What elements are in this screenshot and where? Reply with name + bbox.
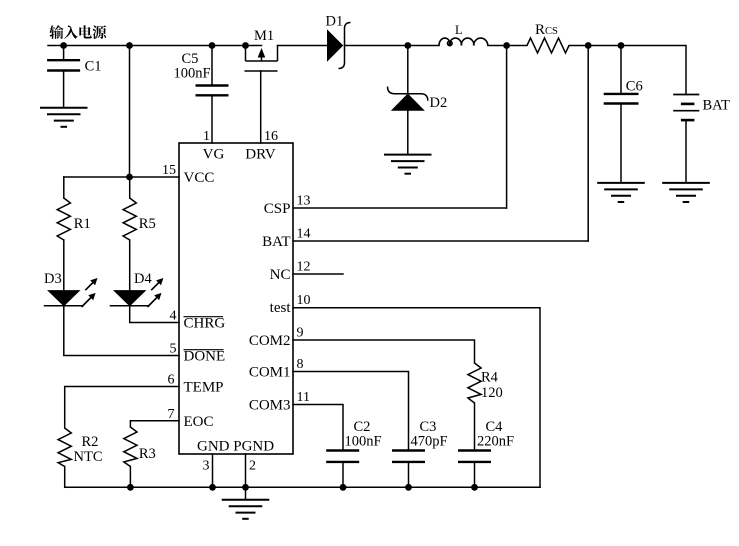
wire pin 13 CSP horizontal xyxy=(293,207,507,209)
svg-text:D2: D2 xyxy=(430,95,448,111)
wire D2 bottom lead to ground xyxy=(407,110,409,154)
svg-text:120: 120 xyxy=(481,385,503,401)
node Rcs / BAT sense junction xyxy=(585,42,592,49)
ground under D2 xyxy=(384,155,432,174)
node D1 cathode / D2 junction xyxy=(404,42,411,49)
svg-text:10: 10 xyxy=(297,293,311,308)
wire pin 7 EOC to R3 xyxy=(130,421,179,427)
wire D4 cathode to pin 4 CHRG xyxy=(130,306,179,323)
svg-text:6: 6 xyxy=(168,373,175,388)
node bottom rail / C3 junction xyxy=(405,484,412,491)
wire Rcs to BAT corner xyxy=(588,46,686,95)
wire top input rail left segment xyxy=(48,45,262,47)
svg-text:11: 11 xyxy=(297,390,310,405)
wire R5 top lead xyxy=(129,177,131,198)
battery BAT xyxy=(673,95,699,183)
node input rail / C5 junction xyxy=(209,42,216,49)
LED D3 xyxy=(48,291,79,306)
svg-text:R1: R1 xyxy=(74,216,91,232)
wire pin 2 PGND lead xyxy=(245,454,247,487)
LED D4 xyxy=(114,291,145,306)
node L / Rcs / CSP junction xyxy=(503,42,510,49)
node bottom rail / R3 junction xyxy=(127,484,134,491)
capacitor C6 xyxy=(604,94,639,104)
wire D2 top lead xyxy=(407,46,409,94)
wire C5 top lead xyxy=(211,46,213,86)
diode D1 xyxy=(328,31,343,61)
capacitor C4 xyxy=(458,451,491,462)
resistor R2 xyxy=(58,428,71,467)
resistor R5 xyxy=(123,198,136,240)
wire pin 16 DRV gate lead xyxy=(260,71,262,143)
resistor R4 xyxy=(468,363,481,403)
svg-text:14: 14 xyxy=(297,227,311,242)
wire pin 6 TEMP to R2 xyxy=(65,387,179,429)
svg-text:R5: R5 xyxy=(139,216,156,232)
wire C1 bottom lead to ground xyxy=(63,71,65,108)
svg-text:COM2: COM2 xyxy=(249,333,291,349)
svg-text:EOC: EOC xyxy=(184,414,214,430)
wire pin 12 NC stub xyxy=(293,273,343,275)
wire D1 cathode to inductor xyxy=(345,45,440,47)
node bottom rail / C2 junction xyxy=(340,484,347,491)
svg-text:15: 15 xyxy=(162,163,176,178)
svg-text:L: L xyxy=(455,23,463,37)
capacitor C5 xyxy=(196,86,229,96)
svg-text:DONE: DONE xyxy=(184,349,226,365)
svg-text:8: 8 xyxy=(297,357,304,372)
wire pin 1 VG lead xyxy=(211,95,213,143)
svg-text:220nF: 220nF xyxy=(477,434,514,450)
svg-text:7: 7 xyxy=(168,407,175,422)
svg-text:9: 9 xyxy=(297,326,304,341)
resistor R1 xyxy=(57,198,70,240)
wire pin 3 GND lead xyxy=(212,454,214,487)
resistor Rcs xyxy=(507,38,589,53)
svg-text:COM3: COM3 xyxy=(249,398,291,414)
svg-text:13: 13 xyxy=(297,194,311,209)
node bottom rail / C4 junction xyxy=(471,484,478,491)
capacitor C1 xyxy=(47,60,80,70)
svg-text:4: 4 xyxy=(170,309,177,324)
svg-text:C1: C1 xyxy=(85,59,102,75)
diode D2 xyxy=(388,87,428,101)
svg-text:1: 1 xyxy=(203,129,210,144)
svg-text:test: test xyxy=(270,300,292,316)
resistor R3 xyxy=(124,427,137,467)
svg-text:16: 16 xyxy=(264,129,278,144)
wire VCC branch vertical xyxy=(129,46,131,178)
node C6 junction xyxy=(618,42,625,49)
wire C6 leads xyxy=(620,46,622,183)
wire pin 14 BAT horizontal xyxy=(293,240,588,242)
svg-text:BAT: BAT xyxy=(262,234,290,250)
wire CSP vertical from L-Rcs junction xyxy=(506,46,508,209)
svg-text:100nF: 100nF xyxy=(174,66,211,82)
wire pin 10 test to bottom rail xyxy=(293,308,540,488)
svg-text:CSP: CSP xyxy=(264,201,291,217)
wire pin 9 COM2 to R4 xyxy=(293,340,475,363)
wire R4 bottom to C4 xyxy=(474,403,476,451)
node input rail / C1 junction xyxy=(60,42,67,49)
svg-text:R4: R4 xyxy=(481,370,499,386)
svg-text:CHRG: CHRG xyxy=(184,316,226,332)
wire C3 bottom lead xyxy=(408,462,410,487)
svg-text:D3: D3 xyxy=(44,271,62,287)
wire pin 8 COM1 to C3 xyxy=(293,372,409,451)
svg-text:5: 5 xyxy=(170,342,177,357)
node VCC / R5 junction xyxy=(126,174,133,181)
wire pin 15 VCC horizontal xyxy=(64,176,179,178)
node bottom rail / pin 2 junction xyxy=(242,484,249,491)
wire inductor to Rcs xyxy=(488,45,507,47)
svg-text:R3: R3 xyxy=(139,446,156,462)
svg-text:NTC: NTC xyxy=(74,449,103,465)
capacitor C2 xyxy=(326,451,359,462)
svg-text:NC: NC xyxy=(270,267,291,283)
svg-text:VG: VG xyxy=(203,147,225,163)
wire C1 top lead xyxy=(63,46,65,61)
svg-text:D1: D1 xyxy=(326,14,344,30)
wire C4 bottom lead xyxy=(474,462,476,487)
svg-text:470pF: 470pF xyxy=(411,434,448,450)
node input rail / M1 source junction xyxy=(242,42,249,49)
capacitor C3 xyxy=(392,451,425,462)
wire D3 cathode to pin 5 DONE xyxy=(64,306,179,356)
transistor M1 xyxy=(245,46,278,72)
node bottom rail / pin 3 junction xyxy=(209,484,216,491)
label 输入电源 input power xyxy=(49,25,106,39)
svg-text:M1: M1 xyxy=(254,28,274,44)
svg-text:VCC: VCC xyxy=(184,170,215,186)
svg-text:D4: D4 xyxy=(134,271,152,287)
wire R1 to D3 xyxy=(63,240,65,291)
inductor L xyxy=(439,38,488,46)
svg-text:BAT: BAT xyxy=(703,98,731,114)
svg-text:COM1: COM1 xyxy=(249,365,291,381)
svg-text:TEMP: TEMP xyxy=(184,380,224,396)
wire R1 top lead xyxy=(63,177,65,198)
svg-text:DRV: DRV xyxy=(245,147,276,163)
svg-text:12: 12 xyxy=(297,260,311,275)
node input rail / VCC branch junction xyxy=(126,42,133,49)
wire BAT sense vertical xyxy=(587,46,589,242)
wire M1 drain to D1 anode xyxy=(278,45,328,47)
svg-text:R2: R2 xyxy=(82,434,99,450)
wire C2 bottom lead xyxy=(342,462,344,487)
wire R2 bottom to bottom rail xyxy=(64,467,66,488)
wire R3 bottom lead xyxy=(129,467,131,488)
wire bottom ground stem xyxy=(245,487,247,499)
svg-text:2: 2 xyxy=(249,459,256,474)
ground under BAT xyxy=(662,183,710,202)
svg-text:GND PGND: GND PGND xyxy=(197,439,274,455)
ground bottom rail xyxy=(222,500,270,519)
ground under C1 xyxy=(40,108,88,127)
wire pin 11 COM3 to C2 xyxy=(293,405,343,451)
ground under C6 xyxy=(597,183,645,202)
svg-text:100nF: 100nF xyxy=(345,434,382,450)
IC U1 body xyxy=(179,143,293,454)
svg-text:C6: C6 xyxy=(626,79,643,95)
wire bottom ground rail xyxy=(65,486,540,488)
svg-text:3: 3 xyxy=(203,459,210,474)
wire R5 to D4 xyxy=(129,240,131,291)
